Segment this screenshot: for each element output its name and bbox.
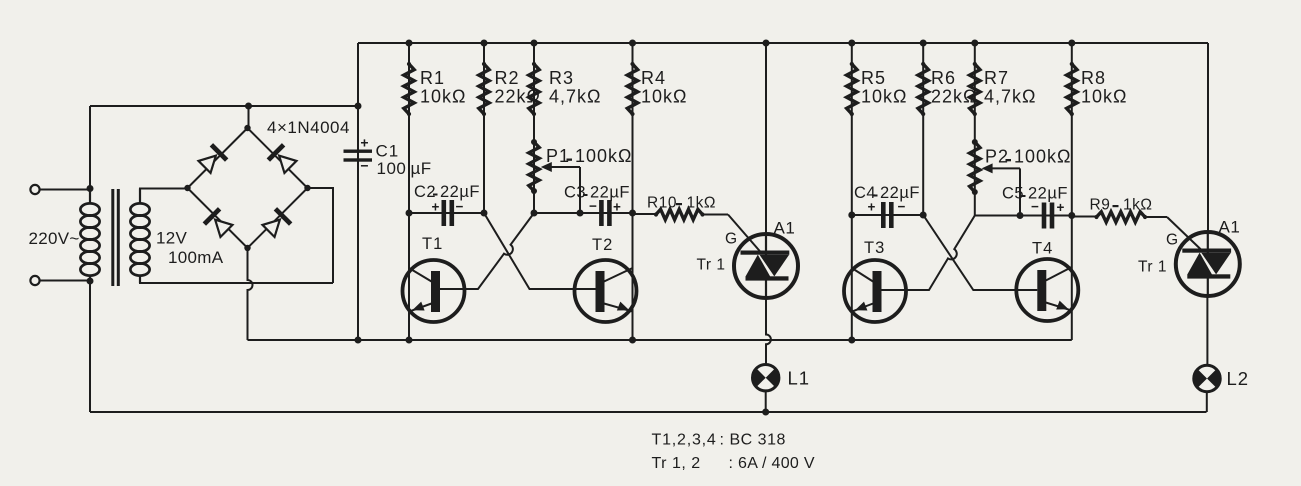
node bridge right vertex xyxy=(304,185,310,191)
svg-text:100mA: 100mA xyxy=(168,248,224,267)
svg-text:R6: R6 xyxy=(931,68,956,88)
node R4 top xyxy=(629,40,636,47)
svg-text:R10: R10 xyxy=(647,195,677,212)
node R6 top xyxy=(920,40,927,47)
wire triac2 gate lead xyxy=(1167,217,1203,251)
svg-text:Tr 1, 2: Tr 1, 2 xyxy=(652,455,701,472)
svg-text:10kΩ: 10kΩ xyxy=(861,87,907,107)
svg-text:C4: C4 xyxy=(854,184,876,202)
potentiometer P1 100k xyxy=(529,140,633,213)
node C4 left xyxy=(848,212,855,219)
resistor R3 4.7k xyxy=(529,62,602,116)
node P2 top xyxy=(972,139,978,145)
transistor T4 BC318 xyxy=(1016,240,1078,322)
svg-text:T1: T1 xyxy=(422,235,443,253)
wire R5 column xyxy=(851,43,853,340)
wire C3 line xyxy=(534,212,633,214)
transistor T2 BC318 xyxy=(575,236,637,322)
node C4 right xyxy=(920,212,927,219)
transistor T1 BC318 xyxy=(403,235,465,322)
svg-text:R5: R5 xyxy=(861,68,886,88)
diode D4 (lower right) xyxy=(261,207,292,238)
node P2 wiper junction xyxy=(1017,212,1024,219)
svg-text:A1: A1 xyxy=(1219,218,1241,237)
svg-text:R4: R4 xyxy=(641,68,666,88)
node P1 bottom xyxy=(531,188,537,194)
lamp L1 xyxy=(753,365,811,391)
svg-text:+: + xyxy=(613,200,621,215)
svg-text:22µF: 22µF xyxy=(880,184,920,202)
svg-text:T2: T2 xyxy=(592,236,613,254)
wire secondary bottom return xyxy=(140,275,333,284)
potentiometer P2 100k xyxy=(970,140,1072,216)
svg-text:T1,2,3,4: T1,2,3,4 xyxy=(652,432,717,449)
wire R2 column xyxy=(483,43,485,213)
node C3 left xyxy=(531,210,538,217)
resistor R10 1k xyxy=(633,195,729,220)
node C3 right xyxy=(629,210,636,217)
wire bridge diamond xyxy=(188,128,308,248)
svg-text:220V~: 220V~ xyxy=(29,229,80,248)
node R8 top xyxy=(1068,40,1075,47)
svg-text:A1: A1 xyxy=(774,219,796,238)
svg-text:12V: 12V xyxy=(156,229,188,248)
resistor R4 10k xyxy=(627,62,687,116)
node bridge bottom vertex xyxy=(244,245,250,251)
svg-text:−: − xyxy=(360,158,368,174)
wire triac1 anode column xyxy=(765,43,767,234)
wire primary bottom drop xyxy=(89,281,91,412)
svg-text::: : xyxy=(720,432,724,449)
resistor R5 10k xyxy=(847,62,908,116)
wire T1 base cross link with hop xyxy=(440,213,534,289)
svg-text:22µF: 22µF xyxy=(440,183,480,201)
node bridge top vertex xyxy=(244,125,250,131)
wire triac2 anode column xyxy=(1207,43,1209,232)
wire C1 column xyxy=(357,43,359,340)
terminal mains input top xyxy=(30,185,39,194)
svg-text:1kΩ: 1kΩ xyxy=(687,195,716,212)
capacitor C2 22uF xyxy=(414,183,480,226)
node triac1 top xyxy=(763,40,770,47)
svg-text:100: 100 xyxy=(377,159,407,178)
svg-text:4×1N4004: 4×1N4004 xyxy=(267,118,350,137)
capacitor C3 22uF xyxy=(564,184,630,227)
wire top supply rail xyxy=(358,42,1208,44)
node R7 top xyxy=(971,40,978,47)
wire T2 base cross link xyxy=(484,213,596,289)
svg-text:R2: R2 xyxy=(495,68,520,88)
terminal mains input bottom xyxy=(30,276,39,285)
node P2 bottom xyxy=(972,189,978,195)
resistor R1 10k xyxy=(404,62,467,116)
svg-text:Tr 1: Tr 1 xyxy=(697,257,726,274)
node R2 top xyxy=(481,40,488,47)
svg-text:−: − xyxy=(456,199,464,214)
wire right AC link xyxy=(308,188,334,283)
svg-text:L2: L2 xyxy=(1227,368,1250,389)
svg-text:C2: C2 xyxy=(414,183,436,201)
wire R6 column xyxy=(922,43,924,215)
svg-text:10kΩ: 10kΩ xyxy=(1081,87,1127,107)
capacitor C1 100uF xyxy=(344,135,432,179)
svg-text:P1: P1 xyxy=(546,146,570,166)
wire triac2 to L2 xyxy=(1206,296,1208,365)
resistor R8 10k xyxy=(1067,62,1128,116)
svg-text:R9: R9 xyxy=(1090,197,1111,214)
wire emitter rail (DC minus) xyxy=(248,339,1072,341)
svg-text:G: G xyxy=(1166,232,1178,249)
wire C4 line xyxy=(852,214,923,216)
node R1 top xyxy=(406,40,413,47)
wire primary top drop xyxy=(89,106,91,189)
wire secondary top link xyxy=(140,189,188,205)
svg-text::: : xyxy=(729,455,733,472)
triac Tr1 (left) xyxy=(697,219,799,299)
svg-text:T4: T4 xyxy=(1032,240,1053,258)
svg-text:BC 318: BC 318 xyxy=(730,432,786,449)
lamp L2 xyxy=(1194,365,1249,391)
resistor R9 1k xyxy=(1072,197,1167,223)
svg-text:+: + xyxy=(432,200,440,215)
node P1 wiper junction xyxy=(577,210,584,217)
svg-text:4,7kΩ: 4,7kΩ xyxy=(549,87,601,107)
svg-text:µF: µF xyxy=(411,159,432,178)
capacitor C4 22uF xyxy=(854,184,920,228)
wire right column upper xyxy=(1207,43,1209,234)
triac Tr1 (right) xyxy=(1138,218,1240,297)
node R5 top xyxy=(848,40,855,47)
svg-text:C3: C3 xyxy=(564,184,586,202)
node T3 emitter xyxy=(848,337,855,344)
wire bridge plus riser xyxy=(248,106,250,128)
svg-text:R1: R1 xyxy=(420,68,445,88)
node primary bottom xyxy=(87,278,94,285)
diode D2 (upper right) xyxy=(267,143,298,174)
svg-text:T3: T3 xyxy=(864,239,885,257)
transformer primary winding 220V xyxy=(29,189,100,282)
diode D1 (upper left) xyxy=(197,143,228,174)
node mains-live / C1+ junction xyxy=(355,103,362,110)
svg-text:10kΩ: 10kΩ xyxy=(420,87,466,107)
svg-text:6A / 400 V: 6A / 400 V xyxy=(738,455,815,472)
svg-text:1kΩ: 1kΩ xyxy=(1123,197,1152,214)
svg-text:C1: C1 xyxy=(376,142,400,161)
node C1 minus junction xyxy=(355,337,362,344)
wire R7/P2 column xyxy=(974,43,976,216)
resistor R2 22k xyxy=(479,62,541,116)
svg-text:4,7kΩ: 4,7kΩ xyxy=(984,87,1036,107)
node bridge left vertex xyxy=(184,185,190,191)
svg-text:G: G xyxy=(725,231,737,248)
transformer secondary winding 12V xyxy=(130,189,223,284)
wire T3 base cross link with hop xyxy=(882,216,975,291)
svg-text:C5: C5 xyxy=(1002,185,1024,203)
wire R8 column xyxy=(1071,43,1073,340)
svg-text:100kΩ: 100kΩ xyxy=(1014,147,1072,167)
node P1 top xyxy=(531,139,537,145)
node bridge top tap xyxy=(245,103,252,110)
wire R4 column xyxy=(632,43,634,340)
svg-text:10kΩ: 10kΩ xyxy=(641,87,687,107)
wire C2 line xyxy=(409,212,484,214)
node C5 right xyxy=(1068,212,1075,219)
resistor R7 4.7k xyxy=(970,62,1037,116)
wire triac1 to L1 with rail hop xyxy=(766,298,771,365)
diode D3 (lower left) xyxy=(203,207,234,238)
svg-text:R8: R8 xyxy=(1081,68,1106,88)
capacitor C5 22uF xyxy=(1002,185,1068,229)
wire bridge minus drop with hop xyxy=(248,248,253,340)
svg-text:22µF: 22µF xyxy=(1028,185,1068,203)
wire triac1 gate lead xyxy=(728,215,761,253)
svg-text:100kΩ: 100kΩ xyxy=(575,146,633,166)
node L1 bottom xyxy=(762,409,769,416)
wire bottom mains rail xyxy=(90,411,1207,413)
node T2 emitter xyxy=(629,337,636,344)
wire T4 base cross link xyxy=(923,215,1037,290)
node R3 top xyxy=(531,40,538,47)
svg-text:+: + xyxy=(360,135,368,151)
node primary top xyxy=(87,185,94,192)
wire R3/P1 column xyxy=(533,43,535,213)
svg-text:Tr 1: Tr 1 xyxy=(1138,259,1167,276)
svg-text:R3: R3 xyxy=(549,68,574,88)
svg-text:R7: R7 xyxy=(984,68,1009,88)
transformer core xyxy=(111,189,120,286)
wire R1 column xyxy=(408,43,410,340)
wire mains live line xyxy=(90,105,358,107)
node C2 right xyxy=(481,210,488,217)
svg-text:P2: P2 xyxy=(985,147,1009,167)
wire C5 line xyxy=(975,215,1072,217)
resistor R6 22k xyxy=(918,62,977,116)
transistor T3 BC318 xyxy=(844,239,906,322)
svg-text:L1: L1 xyxy=(788,368,811,389)
node C2 left xyxy=(406,210,413,217)
svg-text:22µF: 22µF xyxy=(590,184,630,202)
node T1 emitter xyxy=(406,337,413,344)
